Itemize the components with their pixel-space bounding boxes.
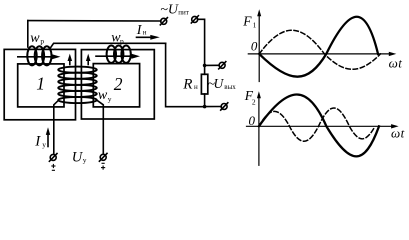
junction upper bbox=[203, 64, 207, 68]
label wp core 2 bbox=[111, 31, 124, 46]
svg-text:ω: ω bbox=[391, 126, 400, 141]
svg-text:2: 2 bbox=[114, 74, 123, 94]
terminal D (output bottom) bbox=[221, 103, 228, 110]
svg-text:р: р bbox=[40, 37, 44, 46]
F2 plot x-axis bbox=[247, 124, 399, 128]
F1 solid curve bbox=[259, 17, 378, 77]
terminal A (supply left) bbox=[160, 18, 167, 25]
F1 dashed curve bbox=[259, 30, 380, 69]
core 2 inner rectangle bbox=[93, 64, 139, 107]
flux arrow core 1 top leg bbox=[18, 54, 61, 59]
label ~U vyh bbox=[208, 76, 237, 91]
svg-text:ω: ω bbox=[389, 55, 398, 70]
label Iy with up arrow bbox=[46, 127, 50, 146]
label wt (F2) bbox=[391, 126, 405, 141]
terminal B (supply right) bbox=[191, 16, 198, 23]
label wt (F1) bbox=[389, 55, 403, 70]
svg-text:у: у bbox=[42, 140, 46, 149]
junction lower bbox=[203, 105, 207, 109]
terminal E (control left) bbox=[49, 154, 57, 162]
wire: terminal B to load (right vertical) bbox=[198, 19, 205, 74]
label In with arrow bbox=[137, 35, 160, 40]
flux arrow core 1 right leg (up) bbox=[68, 54, 73, 65]
label Uy bbox=[72, 149, 87, 165]
core 2 outer rectangle bbox=[81, 50, 154, 119]
wire: return wire down and left to load junction bbox=[166, 43, 205, 106]
wire: control lead right bbox=[97, 100, 104, 154]
label F2 bbox=[244, 88, 256, 106]
control winding wy (coil around middle legs) bbox=[58, 67, 97, 104]
F2 plot y-axis bbox=[257, 91, 261, 165]
wire: supply down to coil 1 bbox=[27, 21, 29, 47]
svg-text:F: F bbox=[242, 14, 252, 29]
label Rn bbox=[182, 77, 198, 93]
flux arrow core 2 top leg bbox=[96, 54, 140, 59]
core 1 inner rectangle bbox=[18, 64, 64, 107]
svg-text:U: U bbox=[214, 76, 225, 91]
svg-text:t: t bbox=[401, 126, 405, 141]
winding wp core 1 (coil) bbox=[27, 46, 51, 65]
wire: resistor to lower junction bbox=[204, 94, 206, 107]
svg-text:U: U bbox=[168, 2, 179, 17]
svg-text:2: 2 bbox=[252, 98, 256, 107]
flux arrow core 2 left leg (up) bbox=[86, 54, 91, 65]
core 1 outer rectangle bbox=[4, 49, 75, 119]
svg-text:1: 1 bbox=[36, 74, 45, 94]
svg-text:w: w bbox=[98, 88, 108, 103]
label wp core 1 bbox=[30, 31, 44, 46]
label ~U pit bbox=[160, 2, 189, 17]
wire: top supply wire to terminal A bbox=[28, 20, 161, 22]
F1 plot x-axis bbox=[248, 52, 396, 56]
svg-text:t: t bbox=[398, 55, 402, 70]
polarity marks control left (+ over -) bbox=[51, 164, 55, 170]
winding wp core 2 (coil) bbox=[107, 46, 131, 63]
F2 dashed curve (double frequency) bbox=[259, 108, 375, 141]
svg-text:R: R bbox=[182, 77, 192, 93]
svg-text:I: I bbox=[34, 134, 41, 150]
svg-text:1: 1 bbox=[253, 20, 257, 29]
wire: control lead left bbox=[54, 101, 58, 155]
F2 solid curve bbox=[259, 95, 379, 157]
wire: stub to terminal D bbox=[205, 106, 222, 108]
svg-text:пит: пит bbox=[178, 8, 189, 16]
resistor Rn bbox=[201, 74, 207, 94]
F1 plot y-axis bbox=[257, 9, 261, 81]
svg-text:у: у bbox=[108, 94, 112, 103]
svg-text:0: 0 bbox=[249, 113, 256, 128]
label F1 bbox=[242, 14, 256, 30]
svg-text:0: 0 bbox=[251, 38, 258, 53]
svg-text:w: w bbox=[30, 31, 40, 46]
wire: stub to terminal C bbox=[205, 64, 220, 66]
polarity marks control right (- over +) bbox=[101, 163, 105, 169]
svg-text:н: н bbox=[143, 29, 147, 37]
svg-text:у: у bbox=[83, 155, 87, 164]
svg-text:вых: вых bbox=[224, 83, 236, 91]
wire: coil1 to coil2 to return corner bbox=[51, 43, 166, 47]
label wy control winding bbox=[98, 88, 112, 103]
svg-text:р: р bbox=[120, 37, 124, 46]
svg-text:н: н bbox=[194, 83, 198, 91]
terminal C (output top) bbox=[219, 62, 226, 69]
terminal F (control right) bbox=[99, 153, 107, 161]
